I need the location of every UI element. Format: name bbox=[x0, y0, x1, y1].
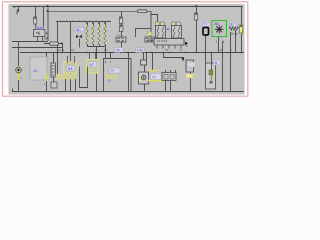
svg-text:24 11: 24 11 bbox=[58, 48, 65, 52]
svg-text:??: ?? bbox=[108, 79, 112, 83]
svg-text:75: 75 bbox=[116, 49, 120, 53]
svg-text:M: M bbox=[167, 28, 170, 32]
svg-text:+ 8: + 8 bbox=[218, 48, 222, 52]
svg-text:14: 14 bbox=[33, 69, 37, 73]
svg-text:2 1 5 3 6: 2 1 5 3 6 bbox=[157, 39, 168, 43]
svg-text:4 7: 4 7 bbox=[104, 48, 108, 52]
svg-text:AC: AC bbox=[76, 28, 81, 32]
svg-text:47: 47 bbox=[90, 62, 95, 67]
svg-text:8: 8 bbox=[215, 61, 217, 65]
svg-text:??: ?? bbox=[152, 75, 156, 79]
svg-text:BF: BF bbox=[45, 37, 49, 41]
svg-text:??: ?? bbox=[204, 23, 208, 27]
svg-text:8J: 8J bbox=[231, 23, 235, 27]
svg-text:A8: A8 bbox=[215, 22, 219, 26]
svg-text:1a 1a: 1a 1a bbox=[231, 32, 238, 36]
svg-text:??: ?? bbox=[111, 69, 115, 73]
svg-text:53: 53 bbox=[68, 66, 73, 71]
svg-text:RUN: RUN bbox=[36, 26, 44, 30]
